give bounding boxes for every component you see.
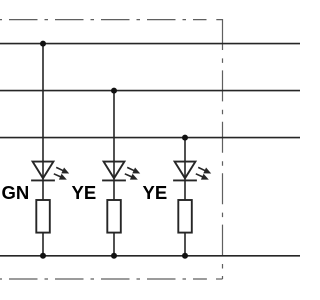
svg-text:YE: YE: [72, 182, 97, 203]
resistor R3: [178, 200, 192, 233]
wire bus line 2: [0, 90, 300, 92]
junction dot branch3/bus3: [182, 135, 188, 141]
svg-text:GN: GN: [2, 182, 30, 203]
junction dot branch1/bus1: [40, 41, 46, 47]
LED D3 yellow: [173, 162, 211, 181]
junction dot branch3/bottom bus: [182, 253, 188, 259]
svg-text:YE: YE: [143, 182, 168, 203]
resistor R1: [36, 200, 50, 233]
junction dot branch2/bottom bus: [111, 253, 117, 259]
junction dot branch2/bus2: [111, 88, 117, 94]
wire LED branch 1 vertical: [42, 44, 44, 256]
wire LED branch 3 vertical: [184, 138, 186, 256]
LED D1 green: [31, 162, 69, 181]
wire bus line 1: [0, 43, 300, 45]
enclosure boundary top-right corner dash: [216, 20, 222, 50]
enclosure boundary top dash-dot line: [0, 19, 207, 21]
enclosure boundary right dash-dot line: [222, 50, 224, 279]
enclosure boundary bottom dash-dot line: [0, 278, 207, 280]
junction dot branch1/bottom bus: [40, 253, 46, 259]
enclosure boundary bottom-right corner dash: [216, 278, 223, 280]
wire bus line 3: [0, 137, 300, 139]
wire bottom bus line: [0, 255, 300, 257]
resistor R2: [107, 200, 121, 233]
LED D2 yellow: [102, 162, 140, 181]
wire LED branch 2 vertical: [113, 91, 115, 256]
